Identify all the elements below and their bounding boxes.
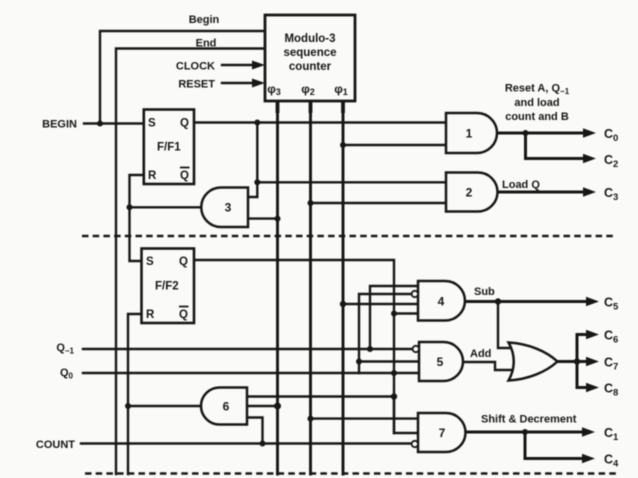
svg-text:BEGIN: BEGIN	[42, 119, 77, 131]
svg-text:Q: Q	[179, 256, 188, 268]
svg-text:Load Q: Load Q	[502, 179, 540, 191]
svg-text:RESET: RESET	[178, 79, 215, 91]
svg-text:sequence: sequence	[283, 47, 336, 59]
svg-text:Q: Q	[179, 309, 188, 321]
svg-text:4: 4	[438, 295, 445, 309]
svg-text:6: 6	[223, 400, 230, 414]
svg-text:5: 5	[437, 355, 444, 369]
svg-text:1: 1	[466, 127, 473, 141]
svg-text:3: 3	[225, 201, 232, 215]
svg-text:End: End	[196, 38, 217, 50]
svg-text:7: 7	[439, 426, 446, 440]
svg-text:R: R	[148, 170, 157, 182]
svg-text:Begin: Begin	[189, 14, 220, 26]
svg-text:Q: Q	[180, 170, 189, 182]
svg-text:and load: and load	[514, 97, 559, 109]
svg-text:S: S	[146, 256, 154, 268]
svg-text:F/F2: F/F2	[155, 281, 179, 293]
svg-text:S: S	[148, 118, 156, 130]
svg-text:Shift & Decrement: Shift & Decrement	[481, 414, 577, 426]
svg-text:count and B: count and B	[505, 111, 569, 123]
svg-text:counter: counter	[289, 61, 332, 73]
svg-text:Add: Add	[470, 348, 491, 360]
svg-text:COUNT: COUNT	[36, 439, 75, 451]
svg-text:2: 2	[466, 186, 473, 200]
svg-text:Modulo-3: Modulo-3	[284, 33, 335, 45]
svg-text:F/F1: F/F1	[157, 142, 181, 154]
svg-text:CLOCK: CLOCK	[176, 61, 215, 73]
svg-text:Reset A, Q−1: Reset A, Q−1	[505, 83, 570, 97]
svg-text:Sub: Sub	[474, 286, 495, 298]
svg-text:R: R	[146, 309, 155, 321]
svg-text:Q: Q	[180, 118, 189, 130]
